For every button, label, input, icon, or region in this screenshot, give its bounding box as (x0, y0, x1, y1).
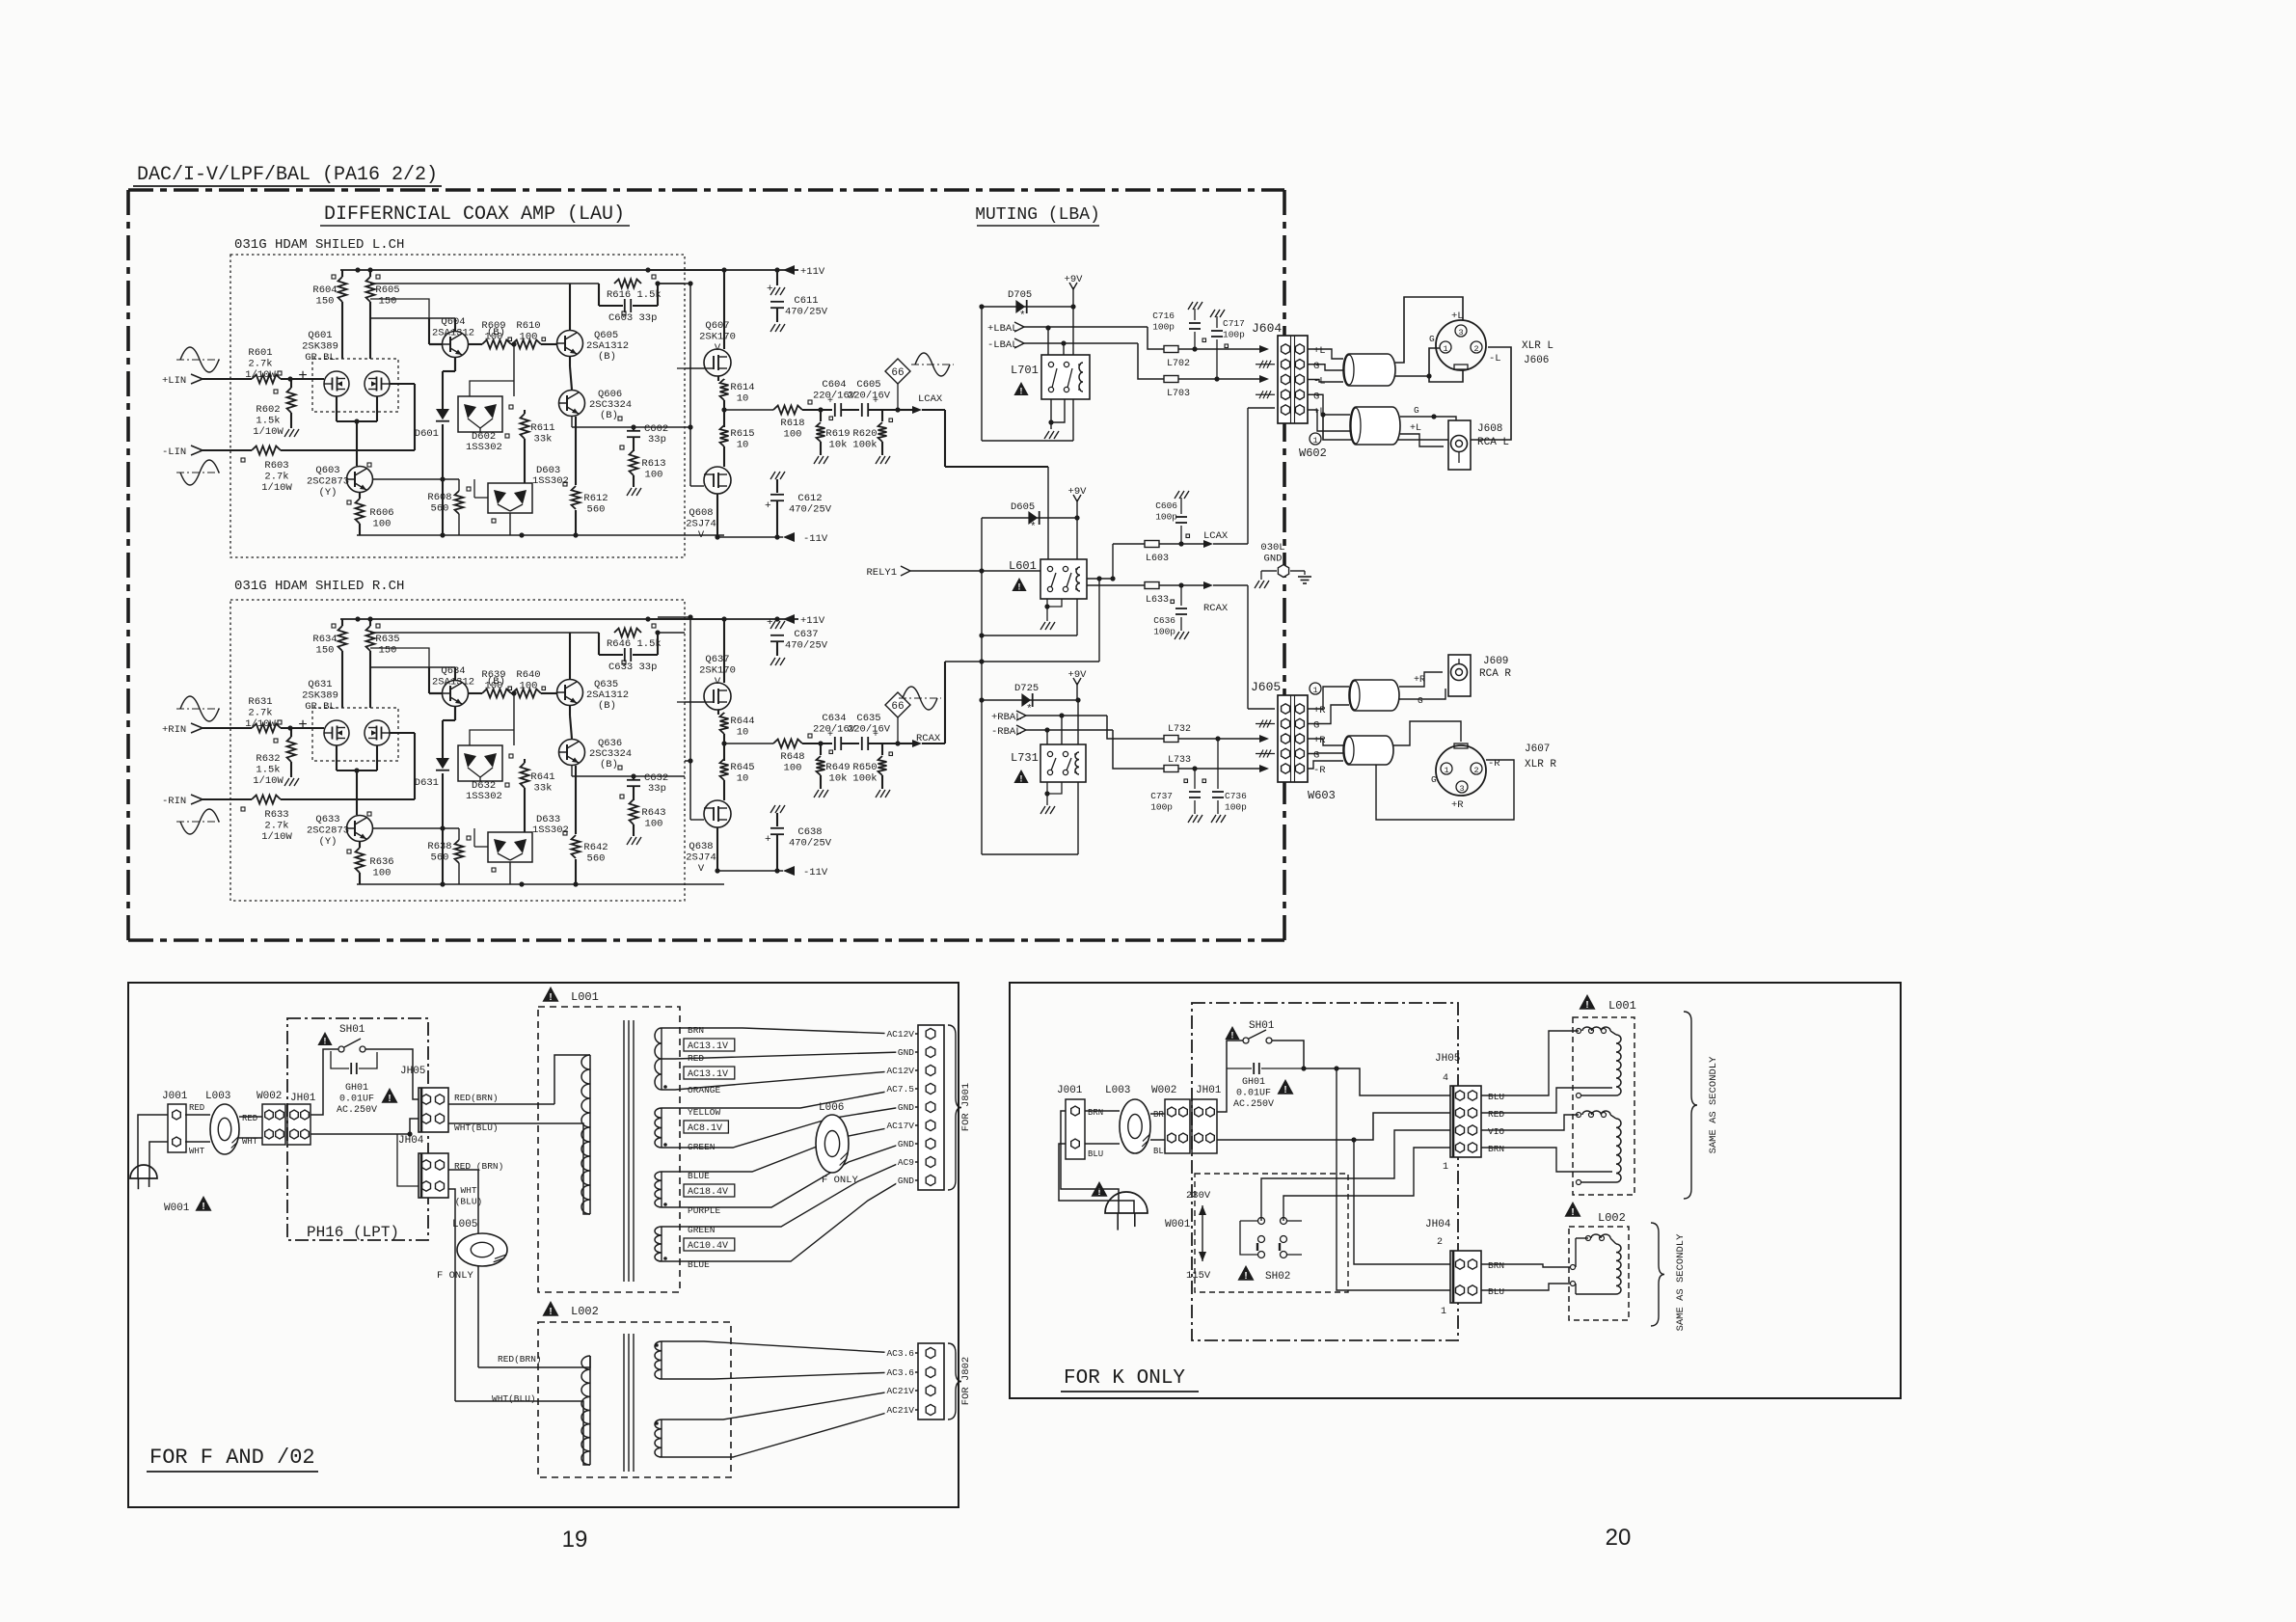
svg-text:L003: L003 (1105, 1085, 1130, 1096)
svg-text:-11V: -11V (803, 533, 828, 545)
svg-text:L703: L703 (1167, 389, 1190, 399)
svg-text:C604: C604 (822, 379, 846, 391)
svg-text:+LBAL: +LBAL (987, 323, 1018, 335)
svg-text:+: + (765, 834, 771, 846)
svg-text:R616 1.5k: R616 1.5k (607, 289, 662, 301)
svg-text:+RBAL: +RBAL (991, 712, 1022, 723)
svg-text:R601: R601 (248, 347, 272, 359)
svg-text:R604: R604 (312, 284, 337, 296)
svg-text:1: 1 (1443, 344, 1447, 354)
svg-text:+RIN: +RIN (162, 724, 186, 736)
svg-text:R618: R618 (780, 418, 804, 429)
svg-text:V: V (698, 863, 705, 875)
svg-text:R643: R643 (641, 807, 665, 819)
svg-text:Q631: Q631 (308, 679, 332, 690)
svg-text:SH01: SH01 (1249, 1020, 1275, 1032)
svg-text:-LIN: -LIN (162, 446, 186, 458)
svg-text:V: V (698, 529, 705, 541)
svg-text:+LIN: +LIN (162, 375, 186, 387)
svg-text:R640: R640 (516, 669, 540, 681)
svg-text:!: ! (324, 1036, 327, 1045)
svg-text:GND: GND (898, 1047, 914, 1058)
svg-text:AC13.1V: AC13.1V (688, 1069, 728, 1080)
svg-text:-11V: -11V (803, 867, 828, 879)
svg-text:R646 1.5k: R646 1.5k (607, 638, 662, 650)
svg-text:C716: C716 (1152, 311, 1175, 321)
svg-text:Q633: Q633 (315, 814, 339, 825)
svg-text:AC3.6: AC3.6 (886, 1367, 914, 1378)
svg-text:33k: 33k (534, 783, 553, 795)
svg-text:1SS302: 1SS302 (466, 442, 502, 453)
svg-text:W001: W001 (1165, 1219, 1191, 1230)
svg-text:L702: L702 (1167, 359, 1190, 369)
svg-text:BRN: BRN (1088, 1108, 1103, 1118)
svg-text:100: 100 (645, 470, 663, 481)
svg-text:!: ! (1231, 1030, 1234, 1040)
svg-text:W002: W002 (257, 1091, 282, 1102)
svg-text:*: * (1026, 704, 1033, 716)
svg-text:150: 150 (379, 645, 397, 657)
svg-text:Q608: Q608 (689, 507, 713, 519)
svg-text:R612: R612 (583, 493, 608, 504)
svg-text:AC17V: AC17V (886, 1121, 914, 1131)
svg-text:10: 10 (737, 727, 749, 739)
svg-text:L003: L003 (205, 1091, 230, 1102)
svg-text:L006: L006 (819, 1102, 844, 1114)
svg-text:J001: J001 (1057, 1085, 1083, 1096)
svg-text:(B): (B) (598, 351, 616, 363)
svg-text:R605: R605 (375, 284, 399, 296)
svg-text:D631: D631 (415, 777, 439, 789)
svg-text:*: * (1019, 311, 1026, 322)
svg-text:150: 150 (379, 296, 397, 308)
svg-text:C611: C611 (794, 295, 818, 307)
svg-text:AC10.4V: AC10.4V (688, 1241, 728, 1252)
svg-text:R609: R609 (481, 320, 505, 332)
svg-text:100: 100 (784, 429, 802, 441)
svg-text:FOR J801: FOR J801 (960, 1083, 972, 1131)
svg-text:C633 33p: C633 33p (608, 662, 657, 673)
svg-text:GND: GND (898, 1139, 914, 1149)
svg-text:RED: RED (1488, 1109, 1504, 1120)
svg-text:+R: +R (1313, 735, 1326, 746)
svg-text:R632: R632 (256, 753, 280, 765)
svg-text:100: 100 (373, 519, 392, 530)
svg-text:V: V (715, 676, 721, 688)
svg-text:R611: R611 (530, 422, 554, 434)
svg-text:!: ! (202, 1202, 204, 1212)
svg-text:1/10W: 1/10W (245, 718, 276, 730)
svg-text:+11V: +11V (800, 615, 825, 627)
svg-text:470/25V: 470/25V (789, 838, 832, 850)
svg-text:AC.250V: AC.250V (337, 1105, 377, 1116)
svg-text:L005: L005 (452, 1219, 477, 1230)
svg-text:FOR J802: FOR J802 (960, 1357, 972, 1405)
svg-text:R641: R641 (530, 771, 554, 783)
svg-text:10: 10 (737, 393, 749, 405)
svg-text:G: G (1414, 405, 1419, 416)
svg-text:220/16V: 220/16V (848, 391, 891, 402)
svg-text:AC13.1V: AC13.1V (688, 1041, 728, 1052)
svg-text:+: + (767, 284, 773, 295)
svg-text:-L: -L (1489, 353, 1501, 365)
svg-text:GH01: GH01 (345, 1083, 368, 1094)
svg-text:J609: J609 (1483, 656, 1508, 667)
svg-text:!: ! (1020, 386, 1023, 395)
svg-text:F ONLY: F ONLY (437, 1270, 474, 1282)
svg-text:R608: R608 (427, 492, 451, 503)
svg-text:JH04: JH04 (1425, 1219, 1451, 1230)
svg-text:AC21V: AC21V (886, 1405, 914, 1416)
svg-text:SAME AS SECONDLY: SAME AS SECONDLY (1708, 1056, 1719, 1154)
svg-text:!: ! (1020, 773, 1023, 783)
svg-text:L002: L002 (571, 1305, 599, 1318)
svg-text:031G HDAM SHILED L.CH: 031G HDAM SHILED L.CH (234, 237, 404, 253)
svg-text:100p: 100p (1225, 802, 1247, 813)
svg-text:2SK389: 2SK389 (302, 341, 338, 353)
svg-text:J607: J607 (1525, 743, 1550, 755)
svg-text:100: 100 (645, 819, 663, 830)
svg-text:-LBAL: -LBAL (987, 339, 1018, 351)
svg-text:R635: R635 (375, 634, 399, 645)
svg-text:LCAX: LCAX (918, 393, 943, 405)
svg-text:DIFFERNCIAL COAX AMP (LAU): DIFFERNCIAL COAX AMP (LAU) (324, 203, 625, 226)
svg-text:Q603: Q603 (315, 465, 339, 476)
svg-text:XLR L: XLR L (1522, 340, 1553, 352)
svg-text:1/10W: 1/10W (261, 831, 292, 843)
svg-text:AC9: AC9 (898, 1157, 914, 1168)
svg-text:GND: GND (1264, 554, 1283, 565)
svg-text:C635: C635 (856, 713, 880, 724)
svg-text:AC7.5: AC7.5 (886, 1084, 914, 1095)
svg-text:AC18.4V: AC18.4V (688, 1187, 728, 1198)
svg-text:GR.BL: GR.BL (305, 352, 336, 364)
svg-text:!: ! (549, 1307, 552, 1317)
svg-text:L731: L731 (1011, 751, 1039, 765)
svg-text:100: 100 (520, 332, 538, 343)
svg-text:1: 1 (1312, 436, 1317, 446)
svg-text:RED(BRN): RED(BRN) (454, 1093, 499, 1103)
svg-text:560: 560 (587, 504, 606, 516)
svg-text:2.7k: 2.7k (248, 708, 272, 719)
svg-text:2SC2873: 2SC2873 (307, 476, 349, 488)
svg-text:C603 33p: C603 33p (608, 312, 657, 324)
svg-text:1: 1 (1312, 686, 1317, 695)
svg-text:!: ! (1018, 581, 1021, 591)
svg-text:WHT: WHT (189, 1147, 205, 1156)
svg-text:100: 100 (485, 681, 503, 692)
svg-text:AC.250V: AC.250V (1233, 1099, 1274, 1110)
svg-text:-RIN: -RIN (162, 796, 186, 807)
svg-text:+9V: +9V (1065, 274, 1084, 285)
svg-text:BLU: BLU (1088, 1149, 1103, 1159)
svg-text:R614: R614 (730, 382, 754, 393)
svg-text:JH05: JH05 (1435, 1053, 1460, 1065)
svg-text:PH16 (LPT): PH16 (LPT) (307, 1224, 399, 1241)
svg-text:GND: GND (898, 1102, 914, 1113)
svg-text:1/10W: 1/10W (261, 482, 292, 494)
svg-text:AC21V: AC21V (886, 1386, 914, 1396)
svg-text:BRN: BRN (688, 1025, 704, 1036)
svg-text:WHT(BLU): WHT(BLU) (492, 1393, 536, 1404)
svg-text:G: G (1429, 334, 1435, 344)
svg-text:WHT: WHT (460, 1185, 476, 1196)
svg-text:MUTING (LBA): MUTING (LBA) (975, 205, 1100, 225)
svg-text:2SA1312: 2SA1312 (432, 328, 474, 339)
svg-text:R633: R633 (264, 809, 288, 821)
svg-text:Q607: Q607 (705, 320, 729, 332)
svg-text:(B): (B) (598, 700, 616, 712)
svg-text:L001: L001 (1608, 999, 1636, 1013)
svg-text:Q638: Q638 (689, 841, 713, 852)
svg-text:-RBAL: -RBAL (991, 726, 1022, 738)
svg-text:C737: C737 (1150, 791, 1173, 801)
svg-text:0.01UF: 0.01UF (1236, 1089, 1271, 1099)
svg-text:AC3.6: AC3.6 (886, 1348, 914, 1359)
svg-text:C638: C638 (797, 826, 822, 838)
svg-text:+9V: +9V (1068, 486, 1088, 498)
svg-text:20: 20 (1606, 1525, 1632, 1551)
svg-text:33k: 33k (534, 434, 553, 446)
svg-text:FOR K ONLY: FOR K ONLY (1064, 1367, 1185, 1390)
svg-text:560: 560 (587, 853, 606, 865)
svg-text:DAC/I-V/LPF/BAL (PA16 2/2): DAC/I-V/LPF/BAL (PA16 2/2) (137, 164, 438, 186)
svg-text:1: 1 (1443, 1162, 1448, 1173)
svg-text:R638: R638 (427, 841, 451, 852)
svg-text:2.7k: 2.7k (264, 821, 288, 832)
svg-text:C637: C637 (794, 629, 818, 640)
svg-text:10: 10 (737, 773, 749, 785)
svg-text:R610: R610 (516, 320, 540, 332)
svg-text:R642: R642 (583, 842, 608, 853)
svg-text:4: 4 (1443, 1073, 1448, 1084)
svg-text:+: + (298, 716, 308, 734)
svg-text:030L: 030L (1260, 542, 1284, 554)
svg-text:D725: D725 (1014, 683, 1039, 694)
svg-text:1/10W: 1/10W (253, 426, 284, 438)
svg-text:230V: 230V (1186, 1190, 1211, 1202)
svg-text:10k: 10k (829, 440, 848, 451)
svg-text:100: 100 (520, 681, 538, 692)
svg-text:RED: RED (189, 1103, 204, 1113)
svg-text:1SS302: 1SS302 (466, 791, 502, 802)
svg-text:2SK170: 2SK170 (699, 665, 736, 677)
svg-text:AC12V: AC12V (886, 1029, 914, 1040)
svg-text:R613: R613 (641, 458, 665, 470)
svg-text:031G HDAM SHILED R.CH: 031G HDAM SHILED R.CH (234, 579, 404, 594)
svg-text:470/25V: 470/25V (785, 307, 828, 318)
svg-text:L001: L001 (571, 990, 599, 1004)
svg-text:G: G (1313, 750, 1319, 762)
svg-text:G: G (1431, 774, 1437, 785)
svg-text:*: * (1030, 522, 1037, 533)
svg-text:+R: +R (1414, 675, 1425, 686)
svg-text:10k: 10k (829, 773, 848, 785)
svg-text:Q601: Q601 (308, 330, 332, 341)
svg-text:1/10W: 1/10W (245, 369, 276, 381)
svg-text:!: ! (1283, 1085, 1286, 1095)
svg-text:+R: +R (1313, 705, 1326, 716)
svg-text:L733: L733 (1168, 755, 1191, 766)
svg-text:JH05: JH05 (400, 1066, 425, 1077)
svg-text:G: G (1313, 361, 1319, 372)
svg-text:+9V: +9V (1068, 669, 1088, 681)
svg-text:GND: GND (898, 1176, 914, 1186)
svg-text:1: 1 (1444, 766, 1448, 775)
svg-text:+L: +L (1451, 311, 1464, 322)
svg-text:R639: R639 (481, 669, 505, 681)
svg-text:C612: C612 (797, 493, 822, 504)
svg-text:220/16V: 220/16V (848, 724, 891, 736)
svg-text:XLR R: XLR R (1525, 759, 1556, 770)
svg-text:!: ! (549, 992, 552, 1003)
svg-text:AC8.1V: AC8.1V (688, 1123, 722, 1134)
svg-text:10: 10 (737, 440, 749, 451)
svg-text:100k: 100k (852, 773, 877, 785)
svg-text:(Y): (Y) (319, 487, 338, 499)
svg-text:+R: +R (1451, 799, 1464, 811)
svg-text:150: 150 (316, 645, 335, 657)
svg-text:JH01: JH01 (1196, 1085, 1222, 1096)
svg-text:3: 3 (1459, 784, 1464, 794)
svg-text:JH04: JH04 (398, 1135, 424, 1147)
svg-text:(B): (B) (600, 759, 618, 770)
svg-text:R603: R603 (264, 460, 288, 472)
svg-text:100p: 100p (1155, 512, 1177, 523)
svg-text:BLU: BLU (1488, 1286, 1504, 1297)
svg-text:W602: W602 (1299, 446, 1327, 460)
svg-text:115V: 115V (1186, 1270, 1211, 1282)
svg-text:V: V (715, 342, 721, 354)
svg-text:G: G (1418, 695, 1423, 706)
svg-text:2.7k: 2.7k (248, 359, 272, 370)
svg-text:66: 66 (891, 367, 904, 379)
svg-text:2: 2 (1473, 766, 1478, 775)
svg-text:W603: W603 (1308, 789, 1336, 802)
svg-text:100: 100 (485, 332, 503, 343)
svg-text:100k: 100k (852, 440, 877, 451)
svg-text:R644: R644 (730, 716, 754, 727)
svg-text:W001: W001 (164, 1203, 190, 1214)
svg-text:RCA L: RCA L (1477, 437, 1509, 448)
svg-text:R631: R631 (248, 696, 272, 708)
svg-text:C636: C636 (1153, 615, 1175, 626)
svg-text:R649: R649 (825, 762, 850, 773)
svg-text:RED: RED (242, 1114, 257, 1123)
svg-text:+: + (765, 500, 771, 512)
svg-text:AC12V: AC12V (886, 1066, 914, 1076)
svg-text:100p: 100p (1152, 322, 1175, 333)
svg-text:G: G (1313, 720, 1319, 732)
svg-text:RCA R: RCA R (1479, 668, 1511, 680)
svg-text:FOR F AND /02: FOR F AND /02 (149, 1446, 315, 1470)
svg-text:Q637: Q637 (705, 654, 729, 665)
svg-text:R602: R602 (256, 404, 280, 416)
svg-text:3: 3 (1458, 328, 1463, 338)
svg-text:SH02: SH02 (1265, 1271, 1290, 1283)
svg-text:RCAX: RCAX (1203, 603, 1229, 614)
svg-text:+: + (767, 617, 773, 629)
svg-text:470/25V: 470/25V (785, 640, 828, 652)
svg-text:GH01: GH01 (1242, 1077, 1265, 1088)
svg-text:2SJ74: 2SJ74 (686, 519, 716, 530)
svg-text:+L: +L (1313, 345, 1326, 357)
svg-text:!: ! (1585, 1000, 1588, 1011)
svg-text:D705: D705 (1008, 289, 1032, 301)
svg-text:L603: L603 (1146, 554, 1169, 564)
svg-text:2: 2 (1473, 344, 1478, 354)
svg-text:JH01: JH01 (290, 1093, 316, 1104)
svg-text:100: 100 (373, 868, 392, 879)
svg-text:R620: R620 (852, 428, 877, 440)
svg-text:J608: J608 (1477, 423, 1502, 435)
svg-text:+11V: +11V (800, 266, 825, 278)
svg-text:150: 150 (316, 296, 335, 308)
svg-text:2SK389: 2SK389 (302, 690, 338, 702)
svg-text:!: ! (388, 1094, 391, 1104)
svg-text:LCAX: LCAX (1203, 530, 1229, 542)
svg-text:C605: C605 (856, 379, 880, 391)
svg-text:L002: L002 (1598, 1211, 1626, 1225)
svg-text:(Y): (Y) (319, 836, 338, 848)
svg-text:470/25V: 470/25V (789, 504, 832, 516)
svg-text:SH01: SH01 (339, 1024, 365, 1036)
svg-text:R645: R645 (730, 762, 754, 773)
svg-text:R615: R615 (730, 428, 754, 440)
svg-text:F ONLY: F ONLY (822, 1175, 859, 1186)
svg-text:100: 100 (784, 763, 802, 774)
svg-text:1/10W: 1/10W (253, 775, 284, 787)
svg-text:560: 560 (431, 503, 449, 515)
svg-text:BRN: BRN (1488, 1144, 1504, 1154)
svg-text:BLU: BLU (1488, 1092, 1504, 1102)
svg-text:-R: -R (1313, 765, 1326, 776)
svg-text:+L: +L (1410, 423, 1421, 434)
svg-text:33p: 33p (648, 783, 666, 795)
svg-text:RELY1: RELY1 (866, 567, 897, 579)
svg-text:L633: L633 (1146, 595, 1169, 606)
svg-text:0.01UF: 0.01UF (339, 1095, 374, 1105)
svg-text:GR.BL: GR.BL (305, 701, 336, 713)
svg-text:L601: L601 (1009, 559, 1037, 573)
svg-text:J606: J606 (1524, 355, 1549, 366)
svg-text:J001: J001 (162, 1091, 188, 1102)
svg-text:100p: 100p (1150, 802, 1173, 813)
svg-text:19: 19 (562, 1527, 588, 1553)
svg-text:2SK170: 2SK170 (699, 332, 736, 343)
svg-text:1.5k: 1.5k (256, 416, 280, 427)
svg-text:+: + (298, 367, 308, 385)
svg-text:(B): (B) (600, 410, 618, 421)
svg-text:J605: J605 (1251, 680, 1281, 694)
svg-text:2: 2 (1437, 1237, 1443, 1248)
svg-text:R634: R634 (312, 634, 337, 645)
svg-text:RED(BRN): RED(BRN) (498, 1354, 542, 1365)
svg-text:VIO: VIO (1488, 1126, 1504, 1137)
svg-text:2SJ74: 2SJ74 (686, 852, 716, 864)
svg-text:D601: D601 (415, 428, 439, 440)
svg-text:R650: R650 (852, 762, 877, 773)
svg-text:C717: C717 (1223, 318, 1245, 329)
svg-text:2SA1312: 2SA1312 (432, 677, 474, 689)
svg-text:C634: C634 (822, 713, 846, 724)
svg-text:66: 66 (891, 701, 904, 713)
svg-text:R606: R606 (369, 507, 393, 519)
svg-text:R648: R648 (780, 751, 804, 763)
svg-text:1: 1 (1441, 1307, 1446, 1317)
svg-text:!: ! (1244, 1271, 1247, 1282)
svg-text:C736: C736 (1225, 791, 1247, 801)
